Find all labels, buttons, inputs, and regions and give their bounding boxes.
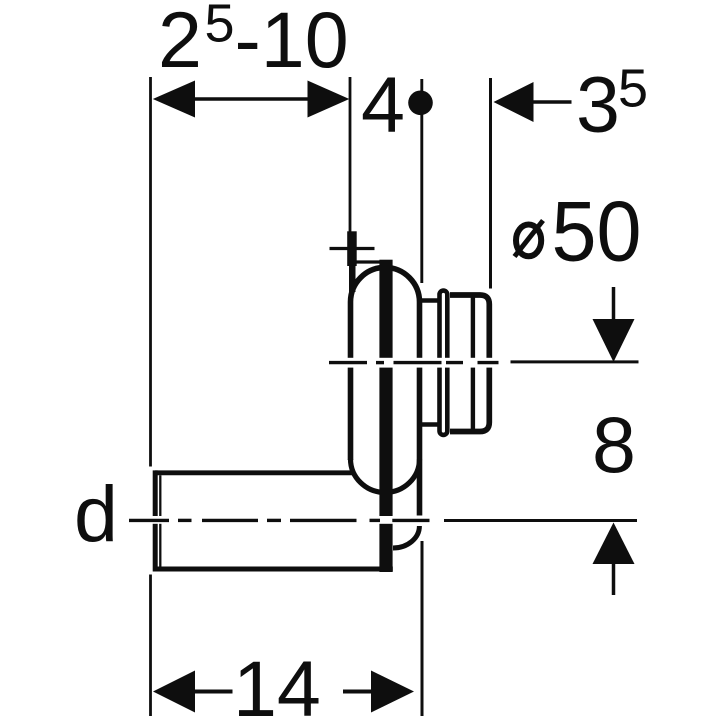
dim 14 right shaft (343, 690, 372, 694)
elbow arc below axis (393, 526, 419, 548)
svg-text:4: 4 (361, 60, 405, 149)
arrow left of 25-10 (153, 81, 195, 118)
dim 14 right arrow (371, 671, 414, 713)
svg-text:d: d (74, 469, 118, 558)
dimension line 25-10 shaft (193, 97, 309, 101)
pipe centerline dash-dot (129, 519, 430, 522)
white break band socket axis (344, 358, 500, 368)
socket body outline (450, 295, 489, 432)
extension line left (x=150.5) upper (149, 77, 152, 467)
reference line B (pipe axis level) (444, 519, 637, 522)
wall mark crossbar at inlet (330, 247, 375, 250)
trap body dome outline (351, 268, 420, 516)
inlet thin horizontal (352, 260, 383, 263)
dim 8 top arrow shaft (612, 287, 616, 323)
svg-text:50: 50 (552, 185, 642, 280)
pipe inner end line (159, 475, 161, 566)
extension line x=422 lower (dim 14) (421, 541, 424, 716)
socket bottom connector (420, 422, 441, 427)
socket centerline dash-dot (329, 361, 499, 364)
extension line x=490.5 (dim 35) (489, 78, 492, 289)
label diameter 50: drawn o-slash (515, 221, 544, 257)
dot of dim 4 (408, 91, 433, 116)
arrow right of 25-10 (308, 81, 350, 118)
socket top connector (420, 298, 441, 303)
svg-text:14: 14 (233, 644, 321, 720)
socket inner line (471, 294, 475, 433)
dim 14 left arrow (153, 671, 195, 713)
pipe top edge (155, 470, 354, 475)
internal partition bar (379, 260, 392, 572)
extension line left lower (149, 575, 152, 717)
dim 14 left shaft (194, 690, 233, 694)
reference line A (socket axis level) (511, 360, 639, 363)
seal ring capsule (440, 291, 448, 435)
dim 8 top arrow (down) (593, 319, 635, 362)
pipe left cap (153, 470, 158, 571)
svg-text:8: 8 (592, 400, 636, 489)
inlet stub (347, 231, 357, 266)
dim 8 bottom arrow (up) (593, 523, 635, 565)
extension line x=350 (right end of 25-10 dim) (349, 77, 352, 233)
svg-text:25-10: 25-10 (158, 0, 349, 84)
white break band pipe axis (148, 516, 440, 524)
extension line x=421 upper (dim 4) (420, 79, 423, 283)
dim 8 bottom arrow shaft (612, 562, 616, 595)
dimension 35 arrow (494, 82, 534, 122)
left wall upper straight piece (349, 263, 356, 292)
pipe bottom edge (155, 567, 393, 572)
dimension 35 shaft (532, 100, 572, 104)
trap body bottom arc (351, 459, 420, 492)
